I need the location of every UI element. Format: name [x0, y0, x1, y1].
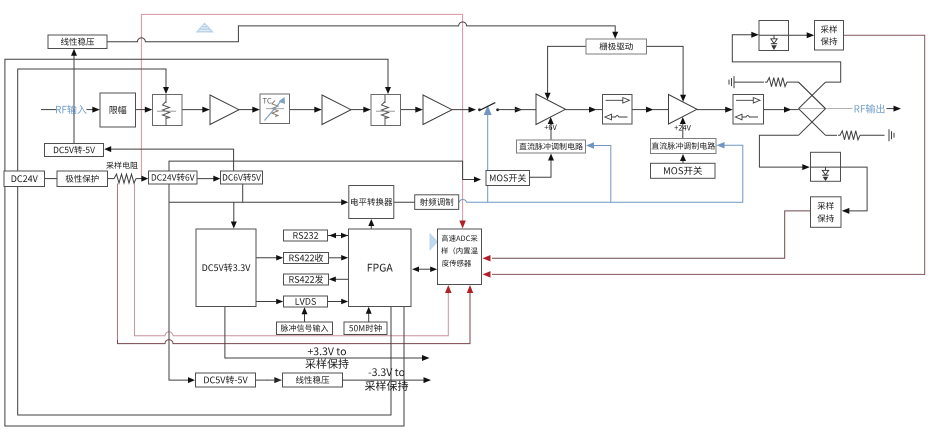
wire gate driver right to +24V amp	[647, 46, 684, 95]
blue branch up to DC pulse modulator 1	[594, 146, 611, 203]
arrow into DC6V-to-5V	[213, 176, 220, 182]
watermark triangle top	[196, 23, 215, 33]
maroon sense line B (resistor left terminal to ADC bottom)	[117, 184, 119, 342]
label RF output (RF输出)	[855, 104, 885, 113]
box linear regulator 2 (线性稳压)	[283, 373, 343, 387]
arrow into MOS switch 1 left	[474, 177, 481, 183]
box high-speed ADC (高速ADC采样)	[438, 229, 482, 285]
box RF modulation (射频调制)	[415, 195, 459, 210]
FPGA to RS422-TX	[335, 278, 349, 280]
amplifier 3	[423, 95, 452, 125]
detector diode box 2	[811, 152, 841, 181]
arrow into limiter	[92, 107, 100, 113]
blue arrow into DC pulse modulator 2	[717, 142, 725, 149]
arrow into DC5V-to-3.3V top	[231, 222, 237, 229]
pink sense line A (resistor right terminal to ADC bottom)	[135, 184, 449, 336]
label sampling resistor (采样电阻)	[106, 162, 137, 169]
wire attenuator 1 to amp 1	[182, 109, 203, 111]
5V rail: DC6V-to-5V bottom junction	[242, 184, 244, 202]
resistor at coupler bottom-right	[826, 134, 838, 136]
wire isolator 1 to +24V amp	[632, 109, 647, 111]
box polarity protection (极性保护)	[57, 171, 108, 187]
blue arrow at RF switch	[484, 106, 492, 116]
wire amp 1 to TC attenuator	[239, 109, 253, 111]
box sample-hold 2 (采样保持)	[811, 197, 842, 228]
wire modulator 1 to +6V amp bottom	[550, 124, 552, 140]
arrow into attenuator 1 top	[163, 87, 169, 94]
box RS422 RX (RS422收)	[284, 253, 329, 264]
amplifier 2	[322, 95, 351, 125]
supply to RS422-RX	[256, 257, 277, 259]
wire attenuator 2 to amp 3	[401, 109, 417, 111]
arrow into attenuator 2 top	[385, 87, 391, 94]
wire isolator 2 to coupler	[764, 109, 785, 111]
ground 1	[733, 76, 735, 88]
isolator 1	[603, 95, 633, 125]
amplifier 1	[210, 95, 239, 125]
resistor to coupler top-left	[734, 81, 764, 83]
arrow into DC5V-to--5V 2 left	[188, 377, 195, 383]
ground 2	[889, 129, 894, 141]
wire MOS switch 2 to DC pulse modulator 2	[682, 161, 684, 164]
level converter to RF modulation	[394, 201, 415, 203]
branch down to DC5V-to-3.3V	[233, 202, 235, 222]
supply to LVDS	[256, 301, 277, 303]
red arrow into ADC right lower	[483, 271, 491, 278]
wire detector 1 to sample-hold 1	[789, 34, 808, 36]
arrow into level converter left	[341, 199, 348, 205]
control loop inner: FPGA to attenuator 1	[18, 69, 391, 415]
wire coupler top-right to sample-hold chain	[732, 35, 840, 82]
box MOS switch 2 (MOS开关)	[651, 163, 716, 178]
box RS422 TX (RS422发)	[284, 274, 329, 285]
wire polarity protection to sampling resistor	[108, 178, 113, 180]
wire DC24V to polarity protection	[45, 178, 58, 180]
red sense line from sampling resistor to ADC top	[141, 14, 462, 222]
control loop outer: FPGA to attenuator 2	[5, 59, 404, 426]
box 50M clock (50M时钟)	[344, 322, 387, 335]
box DC24V to 6V	[149, 171, 198, 184]
box DC pulse modulator 1 (直流脉冲调制电路)	[517, 140, 586, 153]
wire linear regulator 1 to gate driver	[107, 22, 615, 42]
box level converter (电平转换器)	[349, 186, 394, 219]
wire detector 2 to sample-hold 2	[841, 167, 868, 211]
blue branch up to RF switch	[487, 115, 489, 202]
arrow into DC5V-to--5V right	[104, 146, 111, 152]
RF switch	[478, 108, 481, 111]
feedback line from sample-hold 1 to ADC right lower input	[492, 35, 925, 274]
isolator 2	[733, 95, 764, 125]
blue arrow into DC pulse modulator 1	[586, 142, 594, 149]
box DC24V	[4, 171, 45, 187]
LVDS to FPGA	[328, 301, 343, 303]
wire amp 2 to attenuator 2	[351, 109, 364, 111]
-3.3V to sample-hold line	[343, 379, 425, 381]
box limiter (限幅)	[100, 93, 136, 127]
wire limiter to attenuator 1	[136, 109, 147, 111]
box DC5V to 3.3V	[196, 229, 256, 307]
box DC6V to 5V	[221, 171, 263, 184]
5V rail down to DC5V-to--5V 2	[169, 202, 188, 380]
FPGA to ADC double arrow	[418, 268, 431, 270]
box LVDS	[284, 296, 328, 307]
50M clock to FPGA	[368, 313, 370, 322]
TC attenuator	[260, 94, 290, 124]
arrow into linear regulator 1 bottom	[71, 49, 77, 56]
label +3.3V to sample-hold	[308, 347, 346, 355]
wire amp 3 to RF switch	[452, 109, 469, 111]
label -3.3V to sample-hold	[369, 368, 405, 376]
arrow onto +24V amp top	[680, 95, 686, 102]
wire DC5V-to--5V up to linear regulator 1	[73, 56, 75, 144]
blue control line from RF modulation to pulse modulators and switch	[459, 145, 743, 202]
arrow into DC24V-to-6V	[141, 176, 148, 182]
arrow into detector diode box 2	[802, 164, 810, 170]
RF output lead and arrow	[887, 108, 895, 110]
red arrow into ADC right upper	[483, 255, 491, 261]
watermark triangle at ADC	[430, 233, 439, 252]
red arrow B into ADC bottom	[467, 285, 474, 293]
box DC5V to -5V (2)	[196, 373, 256, 387]
wire coupler bottom-left to detector diode box 2	[759, 135, 803, 167]
box gate driver (栅极驱动)	[586, 39, 647, 54]
wire DC5V-to--5V 2 to linear regulator 2	[256, 379, 269, 381]
feedback line from sample-hold 2 to ADC right upper input	[492, 211, 811, 258]
RS232 to FPGA double arrow	[328, 235, 348, 237]
amplifier +6V	[536, 94, 566, 125]
label +24V	[674, 125, 691, 131]
sampling resistor	[112, 174, 136, 183]
arrow into gate driver top	[612, 32, 618, 39]
detector diode box 1	[759, 21, 789, 51]
amplifier +24V	[669, 95, 698, 125]
wire TC attenuator to amp 2	[290, 109, 316, 111]
wire +6V amp to isolator 1	[566, 109, 591, 111]
+3.3V to sample-hold line	[225, 307, 423, 358]
wire MOS switch 1 to DC pulse modulator 1	[530, 160, 552, 177]
wire DC24V-to-6V to DC6V-to-5V	[197, 178, 214, 180]
wire resistor to DC24V-to-6V	[136, 178, 142, 180]
arrow into sample-hold 2 right	[842, 208, 850, 214]
box DC5V to -5V (1)	[45, 144, 104, 157]
label RF input (RF输入)	[56, 105, 87, 114]
wire FPGA to level converter	[370, 226, 372, 229]
box linear regulator 1 (线性稳压)	[48, 35, 107, 49]
red arrow A into ADC bottom	[445, 285, 452, 293]
5V rail horizontal to level converter	[169, 201, 342, 203]
box pulse signal input (脉冲信号输入)	[277, 322, 333, 335]
box RS232	[284, 230, 328, 241]
label +6V	[545, 124, 557, 130]
box sample-hold 1 (采样保持)	[815, 21, 844, 51]
RF input lead	[41, 109, 56, 111]
wire modulator 2 to +24V amp bottom	[682, 124, 684, 139]
5V rail vertical at x=169	[169, 161, 474, 202]
box DC pulse modulator 2 (直流脉冲调制电路)	[651, 139, 717, 154]
wire gate driver left to +6V amp	[548, 46, 586, 93]
pulse signal input to LVDS	[304, 314, 306, 322]
box MOS switch 1 (MOS开关)	[486, 171, 530, 186]
red arrow into ADC top	[459, 221, 466, 229]
wire switch to +6V amp	[499, 109, 509, 111]
box FPGA	[349, 229, 412, 307]
attenuator 1	[153, 95, 183, 126]
wire DC6V-to-5V top to DC5V-to--5V	[111, 149, 234, 171]
arrow into detector diode box 1	[751, 32, 759, 38]
wire +24V amp to isolator 2	[697, 109, 726, 111]
arrow into modulator 1 bottom	[548, 154, 554, 161]
RS422-RX to FPGA	[329, 257, 343, 259]
coupler crossover	[799, 108, 853, 110]
arrow onto +6V amp top	[545, 93, 551, 100]
attenuator 2	[371, 95, 401, 126]
